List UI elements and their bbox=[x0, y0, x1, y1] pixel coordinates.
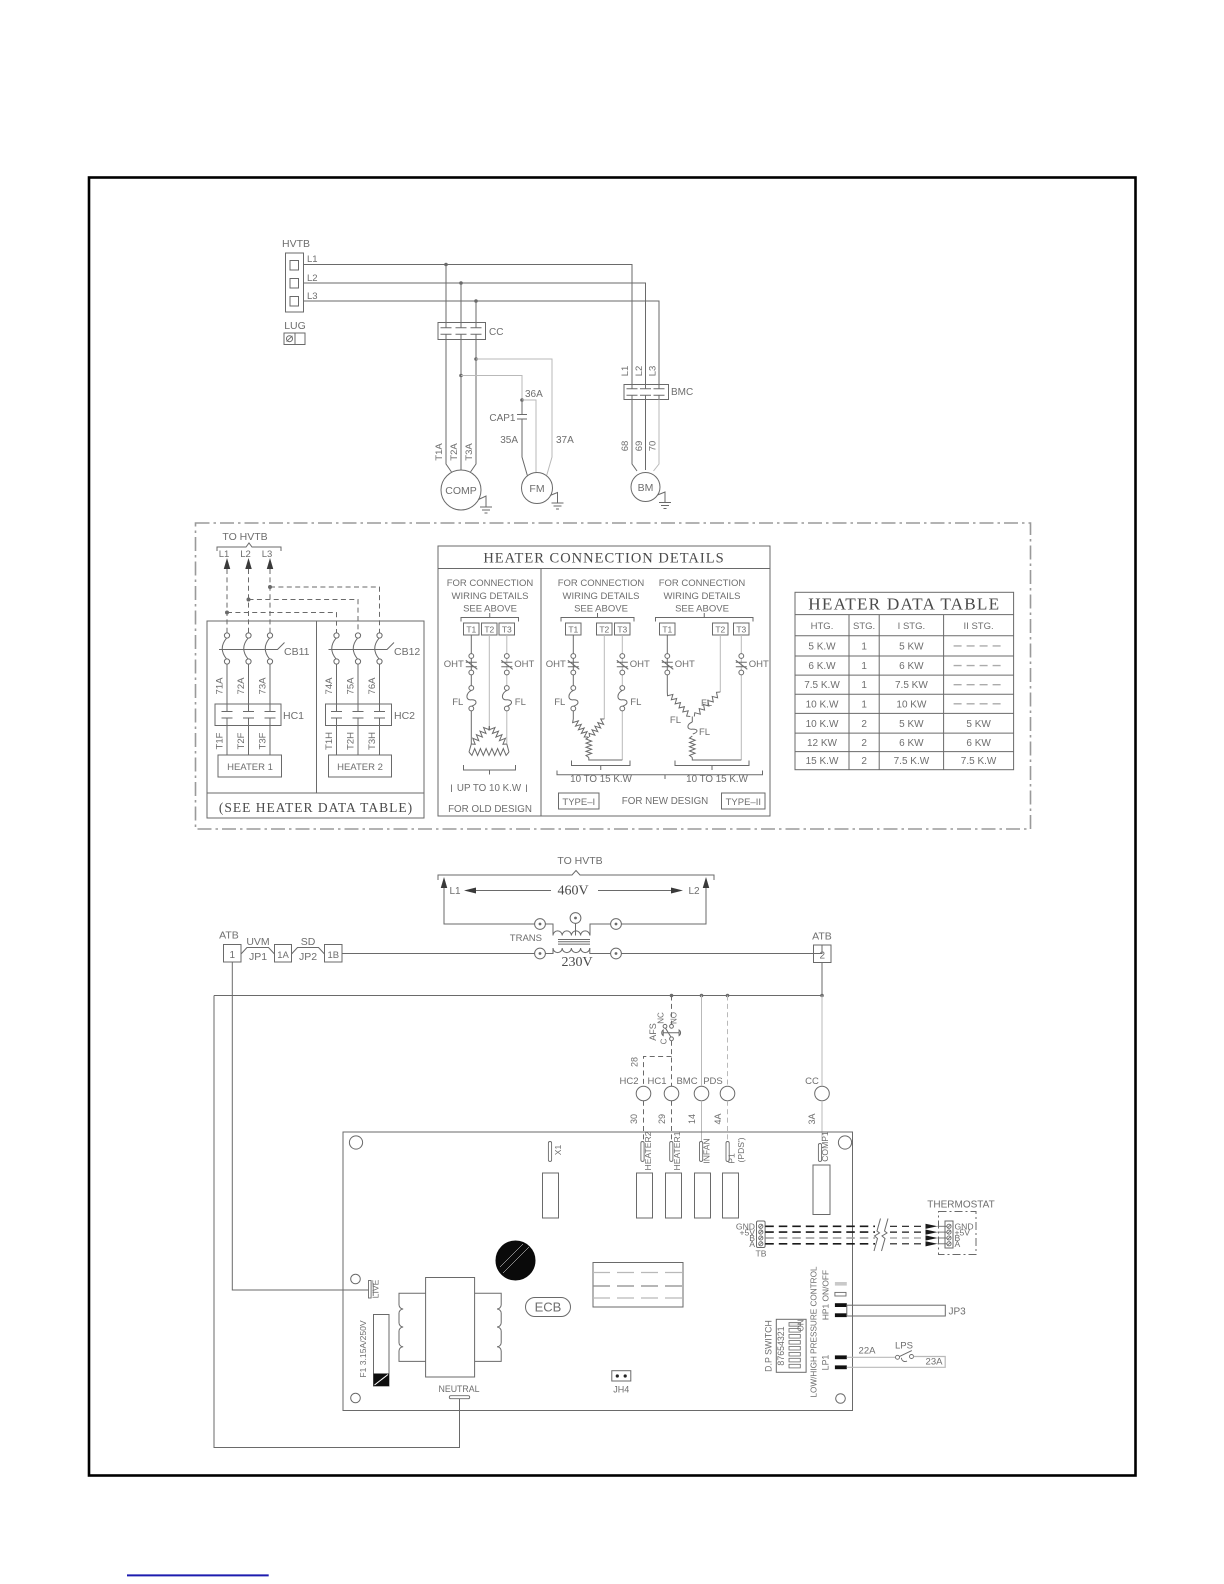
svg-text:4A: 4A bbox=[713, 1113, 723, 1124]
svg-text:NC: NC bbox=[657, 1012, 666, 1024]
coil HC2 bbox=[619, 1076, 650, 1101]
terminal block HVTB bbox=[282, 238, 318, 312]
svg-text:5 KW: 5 KW bbox=[899, 719, 924, 730]
svg-text:HEATER1: HEATER1 bbox=[672, 1131, 682, 1170]
svg-text:TB: TB bbox=[756, 1249, 767, 1259]
wire T1H bbox=[324, 726, 337, 756]
jumper JP2 (SD) bbox=[292, 936, 325, 963]
svg-text:A: A bbox=[955, 1239, 961, 1249]
svg-text:FOR CONNECTION: FOR CONNECTION bbox=[447, 578, 534, 589]
heater element Y (type I) bbox=[573, 719, 623, 760]
fusible link FL T3 (old) bbox=[502, 686, 525, 711]
svg-text:1: 1 bbox=[861, 680, 867, 691]
relay bank bbox=[593, 1263, 683, 1308]
svg-text:10 TO 15 K.W: 10 TO 15 K.W bbox=[570, 774, 632, 785]
heater connection details panel bbox=[438, 546, 770, 816]
svg-text:LP1: LP1 bbox=[821, 1355, 831, 1371]
ground at COMP bbox=[479, 496, 493, 513]
svg-text:FOR NEW DESIGN: FOR NEW DESIGN bbox=[622, 796, 709, 807]
svg-text:36A: 36A bbox=[525, 389, 543, 400]
svg-text:T2: T2 bbox=[484, 625, 494, 635]
svg-text:FOR CONNECTION: FOR CONNECTION bbox=[659, 578, 746, 589]
thermal cutout OHT T1 (old) bbox=[444, 654, 478, 675]
terminal T3 (type I) bbox=[615, 623, 631, 635]
svg-text:T2A: T2A bbox=[449, 443, 460, 461]
junction 37A tap bbox=[474, 357, 478, 361]
page border bbox=[89, 178, 1136, 1476]
thermostat cable (4 dashed wires) bbox=[765, 1226, 925, 1244]
coil CC bbox=[805, 1076, 829, 1101]
svg-text:LOW/HIGH PRESSURE CONTROL: LOW/HIGH PRESSURE CONTROL bbox=[810, 1266, 819, 1397]
thermal cutout OHT T3 (type I) bbox=[617, 654, 650, 675]
svg-text:75A: 75A bbox=[346, 677, 357, 695]
svg-text:FL: FL bbox=[452, 697, 463, 708]
tag TYPE-I bbox=[559, 793, 600, 809]
svg-text:SEE ABOVE: SEE ABOVE bbox=[675, 604, 729, 615]
wire T1F bbox=[215, 726, 228, 756]
circuit board ECB outline bbox=[343, 1132, 853, 1411]
label TO HVTB bbox=[217, 531, 281, 551]
thermostat bbox=[926, 1200, 995, 1255]
wire T2F bbox=[236, 726, 249, 756]
wire 14 bbox=[687, 1101, 702, 1141]
svg-text:T1: T1 bbox=[466, 625, 476, 635]
fusible link FL center (type II) bbox=[688, 717, 710, 739]
wire L1 dashed drop to CB11 bbox=[226, 569, 228, 633]
svg-text:INFAN: INFAN bbox=[702, 1138, 712, 1163]
svg-text:10 K.W: 10 K.W bbox=[806, 719, 839, 730]
junction L1/T1 bbox=[444, 263, 448, 267]
header LP1 bbox=[821, 1355, 847, 1371]
contactor HC2 bbox=[326, 704, 416, 726]
svg-text:2: 2 bbox=[861, 756, 867, 767]
svg-text:T3F: T3F bbox=[258, 732, 269, 749]
bracket 10 to 15 kw (type II) bbox=[675, 761, 749, 771]
wire AFS to HC1 bbox=[671, 1041, 673, 1086]
svg-text:T1: T1 bbox=[662, 625, 672, 635]
terminal T2 (old) bbox=[482, 623, 498, 635]
heater HEATER 2 bbox=[329, 755, 392, 777]
svg-text:OHT: OHT bbox=[514, 659, 534, 670]
svg-text:29: 29 bbox=[657, 1114, 667, 1124]
svg-text:HC2: HC2 bbox=[394, 710, 415, 722]
svg-text:T2: T2 bbox=[599, 625, 609, 635]
wire 37A bbox=[476, 359, 552, 476]
svg-text:68: 68 bbox=[620, 441, 631, 452]
svg-text:D.P SWITCH: D.P SWITCH bbox=[764, 1320, 774, 1372]
svg-text:69: 69 bbox=[634, 441, 645, 452]
wire L3 branch to CB12 bbox=[270, 587, 380, 633]
svg-text:CB12: CB12 bbox=[394, 646, 420, 658]
wire T3 (old) bbox=[506, 635, 508, 744]
transformer TRANS bbox=[444, 911, 706, 971]
junction L2 branch bbox=[247, 598, 251, 602]
svg-text:(SEE HEATER DATA TABLE): (SEE HEATER DATA TABLE) bbox=[219, 800, 413, 815]
svg-text:NO: NO bbox=[670, 1012, 679, 1024]
junction L1 branch bbox=[225, 611, 229, 615]
lug LUG bbox=[284, 320, 306, 345]
thermal cutout OHT T1 (type II) bbox=[662, 654, 695, 675]
motor BM bbox=[631, 473, 660, 502]
svg-text:T3: T3 bbox=[736, 625, 746, 635]
svg-text:6 KW: 6 KW bbox=[966, 738, 991, 749]
svg-text:LIVE: LIVE bbox=[371, 1279, 381, 1298]
wire L1 bbox=[304, 265, 633, 385]
header HP1 bbox=[810, 1266, 847, 1397]
wire 30 bbox=[629, 1101, 644, 1141]
svg-text:HEATER2: HEATER2 bbox=[643, 1131, 653, 1170]
bracket type I bbox=[561, 613, 634, 622]
svg-text:L1: L1 bbox=[219, 549, 230, 560]
mounting holes bbox=[349, 1136, 851, 1403]
svg-text:HEATER DATA TABLE: HEATER DATA TABLE bbox=[808, 595, 1000, 614]
bracket old design bbox=[461, 613, 519, 622]
wire 22A bbox=[847, 1346, 895, 1358]
svg-text:T3: T3 bbox=[502, 625, 512, 635]
svg-text:72A: 72A bbox=[236, 677, 247, 695]
svg-text:3A: 3A bbox=[807, 1113, 817, 1124]
bracket type II bbox=[656, 613, 754, 622]
wire PDS drop bbox=[727, 996, 729, 1087]
svg-text:2: 2 bbox=[861, 738, 867, 749]
wire 4A bbox=[713, 1101, 728, 1141]
svg-text:70: 70 bbox=[648, 441, 659, 452]
svg-text:7.5 K.W: 7.5 K.W bbox=[894, 756, 930, 767]
terminal ATB 1 bbox=[219, 930, 241, 963]
wire T1 drop bbox=[445, 265, 447, 323]
svg-text:12 KW: 12 KW bbox=[807, 738, 838, 749]
wire CC drop bbox=[821, 996, 823, 1087]
svg-text:JP3: JP3 bbox=[949, 1307, 967, 1318]
node L3 to HVTB bbox=[262, 549, 274, 569]
svg-text:NEUTRAL: NEUTRAL bbox=[438, 1384, 479, 1394]
svg-text:UP TO 10 K.W: UP TO 10 K.W bbox=[457, 783, 522, 794]
junction L3/T3 bbox=[474, 299, 478, 303]
wire 75A bbox=[346, 664, 359, 704]
svg-text:L2: L2 bbox=[634, 366, 645, 377]
note FOR CONNECTION (type I) bbox=[558, 578, 645, 615]
svg-text:5 KW: 5 KW bbox=[966, 719, 991, 730]
dimension 460V bbox=[464, 884, 683, 899]
svg-text:F1 3.15A/250V: F1 3.15A/250V bbox=[358, 1320, 368, 1378]
svg-text:T1H: T1H bbox=[324, 732, 335, 750]
wire T3 (type II) bbox=[740, 635, 742, 760]
svg-text:JP2: JP2 bbox=[299, 951, 317, 963]
svg-text:OHT: OHT bbox=[675, 659, 695, 670]
svg-text:74A: 74A bbox=[324, 677, 335, 695]
wire L3 bbox=[304, 301, 660, 385]
relay slot INFAN bbox=[695, 1173, 711, 1218]
svg-text:L2: L2 bbox=[688, 886, 700, 897]
svg-text:L1: L1 bbox=[449, 886, 461, 897]
svg-text:COMP1: COMP1 bbox=[820, 1131, 830, 1162]
svg-text:1: 1 bbox=[230, 950, 236, 961]
footer link line bbox=[127, 1574, 269, 1576]
svg-text:ON: ON bbox=[797, 1319, 806, 1331]
wire T2H bbox=[346, 726, 359, 756]
pin HEATER1 bbox=[670, 1131, 682, 1170]
relay slot X1 bbox=[543, 1173, 559, 1218]
svg-text:10 KW: 10 KW bbox=[896, 699, 927, 710]
wire T2A bbox=[460, 340, 462, 471]
svg-text:I STG.: I STG. bbox=[898, 621, 925, 632]
svg-text:OHT: OHT bbox=[630, 659, 650, 670]
wire T2 (type II) bbox=[719, 635, 721, 692]
svg-text:7.5 K.W: 7.5 K.W bbox=[804, 680, 840, 691]
dip switch D.P SWITCH bbox=[764, 1319, 807, 1372]
svg-text:UVM: UVM bbox=[246, 936, 269, 948]
switch AFS bbox=[648, 996, 681, 1045]
wire L2 bbox=[304, 283, 646, 385]
junction bus PDS bbox=[726, 994, 730, 998]
svg-text:HEATER 2: HEATER 2 bbox=[337, 762, 383, 773]
bracket for new design bbox=[557, 771, 763, 780]
wire 71A bbox=[215, 664, 228, 704]
jumper JP1 (UVM) bbox=[241, 936, 275, 963]
ground at BM bbox=[658, 492, 672, 509]
svg-text:1B: 1B bbox=[327, 950, 339, 961]
svg-text:CB11: CB11 bbox=[284, 646, 310, 658]
svg-text:HEATER CONNECTION DETAILS: HEATER CONNECTION DETAILS bbox=[483, 551, 724, 567]
svg-text:OHT: OHT bbox=[444, 659, 464, 670]
svg-text:6 KW: 6 KW bbox=[899, 738, 924, 749]
labels L1 L2 L3 at BMC bbox=[620, 366, 659, 377]
svg-text:T1A: T1A bbox=[434, 443, 445, 461]
svg-text:ECB: ECB bbox=[535, 1300, 562, 1315]
svg-text:WIRING DETAILS: WIRING DETAILS bbox=[664, 591, 741, 602]
svg-text:35A: 35A bbox=[500, 435, 518, 446]
svg-text:L3: L3 bbox=[307, 291, 318, 302]
wire neutral loop bbox=[214, 996, 460, 1448]
svg-text:FOR CONNECTION: FOR CONNECTION bbox=[558, 578, 645, 589]
svg-text:SEE ABOVE: SEE ABOVE bbox=[463, 604, 517, 615]
svg-text:CAP1: CAP1 bbox=[489, 413, 516, 424]
wire L2 branch to CB12 bbox=[249, 600, 359, 634]
terminal T1 (type II) bbox=[660, 623, 676, 635]
connector NEUTRAL bbox=[438, 1384, 479, 1399]
bracket 10 to 15 kw (type I) bbox=[572, 761, 631, 771]
junction CAP1 tap bbox=[520, 398, 524, 402]
wire 28 branch to HC2 bbox=[630, 1057, 672, 1087]
label ECB bbox=[526, 1298, 571, 1317]
heater panel box bbox=[207, 621, 424, 818]
pin X1 bbox=[548, 1142, 563, 1162]
wire transformer to ATB2 bbox=[621, 945, 822, 954]
circuit breaker CB11 bbox=[219, 633, 310, 664]
junction L3 branch bbox=[268, 585, 272, 589]
connector JH4 bbox=[612, 1371, 631, 1395]
coil BMC bbox=[676, 1076, 708, 1101]
svg-text:LUG: LUG bbox=[284, 320, 306, 332]
svg-text:AFS: AFS bbox=[648, 1023, 658, 1041]
wire 69 bbox=[645, 400, 647, 471]
wire 70 bbox=[654, 400, 660, 472]
svg-text:FL: FL bbox=[554, 697, 565, 708]
svg-text:HC1: HC1 bbox=[283, 710, 304, 722]
svg-text:CC: CC bbox=[489, 327, 503, 338]
svg-text:FL: FL bbox=[515, 697, 526, 708]
svg-text:SD: SD bbox=[301, 936, 316, 948]
svg-text:BMC: BMC bbox=[671, 387, 693, 398]
pin P1 bbox=[726, 1137, 746, 1163]
svg-text:T2: T2 bbox=[715, 625, 725, 635]
wire 3A bbox=[807, 1101, 822, 1141]
svg-text:6 K.W: 6 K.W bbox=[808, 661, 836, 672]
terminal ATB 2 bbox=[812, 931, 832, 963]
pin HEATER2 bbox=[641, 1131, 653, 1170]
wire ATB2 drop to bus bbox=[821, 963, 823, 996]
relay slot HEATER2 bbox=[637, 1173, 653, 1218]
terminal T2 (type II) bbox=[713, 623, 729, 635]
pin COMP1 bbox=[818, 1131, 830, 1162]
wire 35A bbox=[522, 424, 528, 476]
svg-text:HC2: HC2 bbox=[619, 1076, 638, 1087]
svg-text:HVTB: HVTB bbox=[282, 238, 310, 250]
svg-text:JH4: JH4 bbox=[613, 1385, 629, 1395]
wire 29 bbox=[657, 1101, 672, 1141]
svg-text:ATB: ATB bbox=[812, 931, 832, 943]
label UP TO 10 K.W bbox=[452, 783, 527, 794]
wire 68 bbox=[632, 400, 637, 472]
svg-text:22A: 22A bbox=[859, 1346, 877, 1357]
svg-text:1A: 1A bbox=[277, 950, 289, 961]
connector LIVE bbox=[369, 1279, 381, 1298]
transformer on board bbox=[399, 1278, 501, 1378]
svg-text:T3H: T3H bbox=[367, 732, 378, 750]
svg-text:II STG.: II STG. bbox=[964, 621, 994, 632]
svg-text:71A: 71A bbox=[215, 677, 226, 695]
note FOR CONNECTION (type II) bbox=[659, 578, 746, 615]
wire 76A bbox=[367, 664, 380, 704]
svg-text:LPS: LPS bbox=[895, 1341, 913, 1352]
svg-text:TYPE–II: TYPE–II bbox=[726, 797, 761, 808]
svg-text:1: 1 bbox=[861, 661, 867, 672]
svg-text:THERMOSTAT: THERMOSTAT bbox=[927, 1200, 994, 1211]
svg-text:1: 1 bbox=[861, 699, 867, 710]
terminal T3 (old) bbox=[499, 623, 515, 635]
wire T3H bbox=[367, 726, 380, 756]
wire T1 (type I) bbox=[572, 635, 574, 719]
thermal cutout OHT T3 (type II) bbox=[736, 654, 769, 675]
wire 74A bbox=[324, 664, 337, 704]
node L2 to HVTB bbox=[240, 549, 252, 569]
terminal 1B bbox=[325, 945, 343, 963]
wire 1B to transformer bbox=[342, 953, 535, 955]
wire 73A bbox=[258, 664, 271, 704]
svg-text:TO HVTB: TO HVTB bbox=[557, 855, 602, 867]
wire T1 (type II) bbox=[666, 635, 668, 692]
svg-text:1: 1 bbox=[861, 641, 867, 652]
svg-text:ATB: ATB bbox=[219, 930, 239, 942]
wire T2 (type I) bbox=[603, 635, 605, 719]
coil HC1 bbox=[647, 1076, 678, 1101]
arrow L2 (trans) bbox=[688, 877, 709, 911]
wire 36A bbox=[461, 376, 522, 401]
cable break symbol bbox=[874, 1219, 888, 1252]
svg-text:TYPE–I: TYPE–I bbox=[562, 797, 595, 808]
svg-text:460V: 460V bbox=[557, 884, 588, 899]
control bus bbox=[214, 995, 822, 997]
terminal T3 (type II) bbox=[734, 623, 750, 635]
svg-text:COMP: COMP bbox=[445, 485, 477, 497]
terminal T2 (type I) bbox=[597, 623, 613, 635]
svg-text:FM: FM bbox=[529, 483, 544, 495]
svg-text:T3A: T3A bbox=[464, 443, 475, 461]
terminal T1 (old) bbox=[464, 623, 480, 635]
svg-text:T2F: T2F bbox=[236, 732, 247, 749]
svg-text:FOR OLD DESIGN: FOR OLD DESIGN bbox=[448, 804, 532, 815]
motor COMP bbox=[441, 470, 481, 510]
wire T2 drop bbox=[460, 283, 462, 323]
svg-text:5 KW: 5 KW bbox=[899, 641, 924, 652]
tag TYPE-II bbox=[722, 793, 766, 809]
wire live loop ATB1 to LIVE bbox=[232, 962, 368, 1290]
svg-text:FL: FL bbox=[670, 715, 681, 726]
svg-text:T3: T3 bbox=[617, 625, 627, 635]
svg-text:L3: L3 bbox=[648, 366, 659, 377]
svg-text:2: 2 bbox=[820, 951, 826, 962]
thermal cutout OHT T1 (type I) bbox=[546, 654, 580, 675]
svg-text:T1: T1 bbox=[568, 625, 578, 635]
wire 23A bbox=[847, 1357, 945, 1368]
svg-text:(PDS'): (PDS') bbox=[736, 1137, 746, 1162]
svg-text:TRANS: TRANS bbox=[510, 933, 542, 944]
labels 68 69 70 bbox=[620, 441, 659, 452]
svg-text:L3: L3 bbox=[262, 549, 273, 560]
heater element (type II) bbox=[690, 736, 742, 760]
svg-text:HP1 ON/OFF: HP1 ON/OFF bbox=[821, 1270, 831, 1320]
heater element delta (old) bbox=[469, 726, 509, 755]
junction bus CC bbox=[820, 994, 824, 998]
coil PDS bbox=[703, 1076, 735, 1101]
svg-text:2: 2 bbox=[861, 719, 867, 730]
svg-text:230V: 230V bbox=[561, 955, 592, 970]
jumper JP3 bbox=[847, 1305, 966, 1317]
wire 72A bbox=[236, 664, 249, 704]
svg-text:7.5 K.W: 7.5 K.W bbox=[961, 756, 997, 767]
labels T1A T2A T3A bbox=[434, 443, 475, 461]
capacitor CAP1 bbox=[489, 400, 527, 424]
svg-text:JP1: JP1 bbox=[249, 951, 267, 963]
relay slot COMP1 bbox=[813, 1165, 830, 1215]
wire BMC drop bbox=[701, 996, 703, 1087]
svg-text:10 K.W: 10 K.W bbox=[806, 699, 839, 710]
wire T3F bbox=[258, 726, 271, 756]
fusible link FL T1 (old) bbox=[452, 686, 476, 711]
svg-text:37A: 37A bbox=[556, 435, 574, 446]
terminal T1 (type I) bbox=[566, 623, 582, 635]
fusible link FL T3 (type I) bbox=[618, 686, 641, 711]
switch LPS bbox=[895, 1341, 913, 1362]
wire T2 (old) bbox=[488, 635, 490, 726]
svg-text:P1: P1 bbox=[727, 1153, 737, 1164]
svg-text:L2: L2 bbox=[240, 549, 251, 560]
svg-text:6 KW: 6 KW bbox=[899, 661, 924, 672]
wire T1 (old) bbox=[470, 635, 472, 744]
svg-text:HEATER 1: HEATER 1 bbox=[227, 762, 273, 773]
svg-text:BM: BM bbox=[638, 482, 654, 494]
svg-text:FL: FL bbox=[701, 698, 712, 709]
wire T3A bbox=[471, 340, 477, 473]
thermal cutout OHT T3 (old) bbox=[501, 654, 534, 675]
svg-text:HTG.: HTG. bbox=[811, 621, 834, 632]
svg-text:WIRING DETAILS: WIRING DETAILS bbox=[563, 591, 640, 602]
svg-text:CC: CC bbox=[805, 1076, 819, 1087]
svg-text:87654321: 87654321 bbox=[776, 1326, 786, 1365]
buzzer bbox=[496, 1241, 535, 1280]
svg-text:L1: L1 bbox=[307, 254, 318, 265]
fusible link FL left (type II) bbox=[667, 692, 690, 726]
